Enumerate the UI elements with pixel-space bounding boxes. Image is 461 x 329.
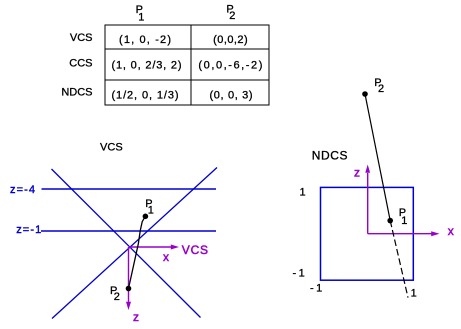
- svg-text:(0,0,2): (0,0,2): [213, 34, 248, 46]
- svg-text:(1, 0, 2/3, 2): (1, 0, 2/3, 2): [112, 59, 182, 71]
- svg-text:1: 1: [401, 215, 407, 227]
- solid line P2-P1 in NDCS: [365, 94, 390, 221]
- label P2 (NDCS): [374, 77, 384, 95]
- table header label P2: [226, 4, 235, 22]
- svg-text:1: 1: [148, 205, 154, 217]
- label P1 (VCS): [145, 198, 154, 216]
- label P2 (VCS): [110, 285, 120, 303]
- far plane line z=-4: [42, 188, 217, 190]
- VCS x-axis (purple): [129, 245, 180, 250]
- svg-text:(1/2, 0, 1/3): (1/2, 0, 1/3): [112, 89, 179, 101]
- point P1 (NDCS): [387, 218, 393, 224]
- frustum edge (down-right diagonal): [52, 169, 201, 318]
- NDCS z-axis (purple): [365, 165, 370, 234]
- svg-text:NDCS: NDCS: [312, 148, 348, 162]
- svg-text:z: z: [354, 165, 360, 179]
- svg-text:2: 2: [378, 83, 384, 95]
- svg-text:2: 2: [114, 291, 120, 303]
- NDCS unit square (blue): [321, 187, 414, 280]
- svg-text:z: z: [133, 310, 139, 324]
- svg-text:(0,0,-6,-2): (0,0,-6,-2): [198, 59, 262, 71]
- NDCS x-axis (purple): [368, 231, 440, 236]
- svg-text:-1: -1: [310, 282, 322, 294]
- point P2 (VCS): [126, 286, 132, 292]
- point P2 (NDCS): [362, 91, 368, 97]
- label P1 (NDCS): [399, 207, 408, 227]
- line P1-P2 in VCS: [129, 216, 146, 288]
- point P1 (VCS): [143, 214, 149, 220]
- svg-text:NDCS: NDCS: [61, 87, 92, 99]
- frustum edge (up-right diagonal): [52, 168, 217, 319]
- svg-text:z=-4: z=-4: [10, 184, 35, 196]
- svg-text:1: 1: [300, 186, 306, 198]
- svg-text:VCS: VCS: [70, 32, 93, 44]
- svg-text:1: 1: [411, 287, 417, 299]
- svg-text:z=-1: z=-1: [16, 224, 41, 236]
- svg-text:1: 1: [138, 12, 144, 24]
- svg-text:x: x: [163, 250, 169, 264]
- svg-text:-1: -1: [293, 268, 305, 280]
- near plane line z=-1: [41, 230, 216, 232]
- svg-text:(0, 0, 3): (0, 0, 3): [210, 89, 253, 101]
- svg-text:VCS: VCS: [182, 243, 208, 257]
- svg-text:(1, 0, -2): (1, 0, -2): [119, 34, 171, 46]
- svg-text:VCS: VCS: [100, 142, 123, 154]
- svg-text:2: 2: [229, 10, 235, 22]
- svg-text:CCS: CCS: [69, 58, 92, 70]
- table header label P1: [136, 4, 145, 24]
- svg-text:x: x: [448, 224, 454, 238]
- table frame: [105, 25, 269, 105]
- dashed extension of line below P1 in NDCS: [390, 221, 408, 298]
- VCS z-axis (purple): [126, 247, 131, 310]
